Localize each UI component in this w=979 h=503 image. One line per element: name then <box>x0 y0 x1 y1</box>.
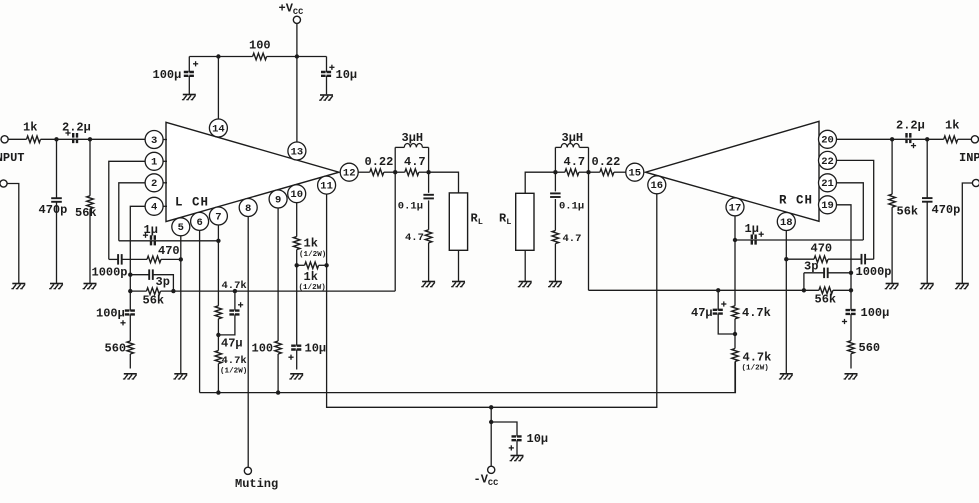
ground supply 100uF <box>182 95 196 100</box>
load resistor RL right <box>516 193 534 250</box>
resistor 4.7 R damping <box>565 169 579 176</box>
node R output A <box>586 170 590 174</box>
resistor 56k R input bias <box>889 194 896 207</box>
svg-text:Muting: Muting <box>235 477 278 491</box>
wire 470p to ground <box>56 202 58 283</box>
wire pin 12 output <box>358 171 370 173</box>
wire pin 17 down <box>734 216 736 306</box>
pin 17 R CH <box>726 198 744 216</box>
label 1uF left <box>144 223 158 237</box>
svg-text:(1/2W): (1/2W) <box>220 368 247 376</box>
wire 47uF branch right <box>717 290 719 310</box>
wire R output A-B <box>555 171 565 173</box>
ground R feedback chain <box>844 374 858 379</box>
node pin9 on bus <box>276 390 280 394</box>
capacitor 100uF R feedback <box>842 310 857 324</box>
load resistor RL left <box>449 193 467 250</box>
wire muting bias bus <box>200 362 736 393</box>
label 56k right input <box>897 205 919 219</box>
svg-text:17: 17 <box>729 202 742 214</box>
wire pin 17 down c <box>734 362 736 393</box>
wire L zobel mid <box>428 200 430 229</box>
label 470 right <box>811 242 833 256</box>
label INPUT left <box>0 151 25 165</box>
wire row 56k long b <box>161 290 396 292</box>
capacitor 100uF L feedback <box>120 311 135 326</box>
svg-text:100µ: 100µ <box>96 307 125 321</box>
wire pin 2 to 1uF row <box>119 183 145 241</box>
ground R 56k <box>885 284 899 289</box>
resistor 560 L feedback <box>127 341 134 354</box>
wire L load gnd <box>458 250 460 281</box>
svg-text:4.7: 4.7 <box>563 233 582 245</box>
label 47uF right <box>691 306 713 320</box>
pin 18 R CH <box>777 213 795 231</box>
wire to R load <box>525 172 555 193</box>
pin 16 R CH <box>648 176 666 194</box>
capacitor 10uF -Vcc <box>509 436 523 450</box>
wire R 470p branch <box>926 139 928 198</box>
svg-text:470: 470 <box>811 242 833 256</box>
wire R 56k branch <box>891 139 893 194</box>
svg-text:12: 12 <box>343 168 356 180</box>
ground pin10 10uF <box>289 374 303 379</box>
label 1000p right <box>856 265 892 279</box>
pin 20 R CH <box>819 130 837 148</box>
wire 100uF 560 chain b <box>129 314 131 341</box>
label 1k left <box>23 121 37 135</box>
svg-text:56k: 56k <box>75 206 97 220</box>
resistor 56k R feedback <box>819 287 833 294</box>
node 3p row right <box>849 271 853 275</box>
wire -Vcc 10uF gnd <box>516 440 518 455</box>
svg-text:10µ: 10µ <box>305 342 327 356</box>
svg-text:21: 21 <box>821 178 834 190</box>
wire to L load <box>429 172 459 193</box>
svg-text:3p: 3p <box>156 275 170 289</box>
wire bridge right stub <box>319 264 327 266</box>
wire R zobel <box>554 172 556 191</box>
label +VCC <box>279 2 304 18</box>
inductor 3uH R <box>555 143 588 172</box>
wire L feedback tap <box>394 172 396 291</box>
capacitor 1uF R feedback <box>752 232 764 246</box>
wire L input line b <box>41 138 146 140</box>
wire R input line <box>837 138 944 140</box>
wire L zobel <box>428 172 430 193</box>
wire pin 6 to bus <box>199 230 201 392</box>
resistor 100 (pin9) <box>275 341 282 354</box>
svg-text:13: 13 <box>291 146 304 158</box>
label RL right <box>499 212 511 228</box>
pin 12 L CH output <box>340 163 358 181</box>
label (1/2W) left <box>220 368 247 376</box>
wire row 470 right <box>786 258 814 260</box>
label 1k pin10 <box>304 237 318 251</box>
wire row 3p right <box>804 272 824 274</box>
svg-text:16: 16 <box>650 180 663 192</box>
svg-text:56k: 56k <box>897 205 919 219</box>
svg-text:(1/2W): (1/2W) <box>299 284 326 292</box>
pin 21 R CH <box>819 174 837 192</box>
svg-text:0.1µ: 0.1µ <box>559 201 584 213</box>
wire 100uF 560 chain c <box>129 354 131 369</box>
wire row 56k long right b <box>833 289 851 291</box>
label 100uF <box>153 68 182 82</box>
capacitor 2.2uF L input coupling <box>65 130 77 144</box>
capacitor 3p L feedback <box>149 269 153 280</box>
ground L input return <box>11 284 25 289</box>
label 0.1uF right <box>559 201 584 213</box>
pin 14 L CH <box>209 119 227 137</box>
node R output B <box>553 170 557 174</box>
op-amp L CH power amplifier <box>166 122 339 221</box>
node 47uF top right <box>716 288 720 292</box>
wire pin 11 to -Vcc row <box>327 194 492 407</box>
pin 3 L CH <box>145 131 163 149</box>
wire 56k branch <box>89 139 91 196</box>
node -Vcc cap tap <box>489 420 493 424</box>
label 4.7 right damping <box>564 155 586 169</box>
ground R 470p <box>920 284 934 289</box>
wire pin 10 down b <box>296 250 298 346</box>
wire pin 15 output <box>614 171 626 173</box>
wire L input line <box>9 138 27 140</box>
wire pin 22 to 1000p row <box>837 160 874 259</box>
resistor 1k 1/2W bridge <box>305 262 319 269</box>
inductor 3uH L <box>395 143 428 172</box>
wire L zobel gnd <box>428 243 430 281</box>
label 1k bridge <box>304 270 318 284</box>
pin 2 L CH <box>145 174 163 192</box>
node -Vcc on row <box>489 405 493 409</box>
wire R load gnd <box>524 250 526 281</box>
label -VCC <box>474 473 499 489</box>
wire pin 7 down b <box>217 319 219 351</box>
label 470p left <box>39 203 68 217</box>
svg-text:INPUT: INPUT <box>0 151 25 165</box>
capacitor 47uF L <box>229 302 243 314</box>
svg-text:R CH: R CH <box>779 194 813 208</box>
label RL left <box>471 212 483 228</box>
capacitor 3p R feedback <box>824 268 828 279</box>
svg-text:4.7k: 4.7k <box>742 306 771 320</box>
svg-text:10µ: 10µ <box>527 432 549 446</box>
svg-text:3p: 3p <box>804 260 818 274</box>
svg-text:100: 100 <box>252 342 274 356</box>
node L output B <box>426 170 430 174</box>
label (1/2W) right <box>742 365 769 373</box>
svg-text:3µH: 3µH <box>402 131 424 145</box>
label 3p left <box>156 275 170 289</box>
label 100 <box>249 39 271 53</box>
svg-text:470p: 470p <box>39 203 68 217</box>
svg-text:4.7: 4.7 <box>404 155 426 169</box>
resistor 4.7k 1/2W R <box>732 349 739 362</box>
pin 4 L CH <box>145 197 163 215</box>
node R input 56k tap <box>890 137 894 141</box>
ground supply 10uF <box>319 95 333 100</box>
label 0.22 right <box>592 155 621 169</box>
wire stub pin 3 <box>154 139 167 141</box>
node pin7 chain on bus <box>216 390 220 394</box>
wire pin 21 to 1uF row <box>837 183 864 240</box>
wire pin 5 down <box>180 236 182 374</box>
svg-text:560: 560 <box>105 342 127 356</box>
wire stub pin 2 <box>154 182 167 184</box>
label (1/2W) pin10 <box>299 251 326 259</box>
svg-text:3: 3 <box>151 135 157 147</box>
capacitor 1uF L feedback <box>143 233 155 247</box>
svg-text:(1/2W): (1/2W) <box>299 251 326 259</box>
wire row 470 right b <box>828 258 862 260</box>
label 0.1uF left <box>398 201 423 213</box>
label 3p right <box>804 260 818 274</box>
svg-text:11: 11 <box>320 181 333 193</box>
pin 15 R CH output <box>626 163 644 181</box>
svg-text:20: 20 <box>821 135 834 147</box>
label 560 right <box>859 341 881 355</box>
svg-text:470p: 470p <box>932 203 961 217</box>
label 56k left input <box>75 206 97 220</box>
ground R load <box>518 282 532 287</box>
resistor 4.7 L zobel <box>425 230 432 243</box>
wire R input line b <box>958 138 971 140</box>
label 4.7 left damping <box>404 155 426 169</box>
node 1uF row at pin 17 <box>733 238 737 242</box>
wire row C-D join right <box>803 273 805 291</box>
label 470 left <box>158 244 180 258</box>
label 560 left <box>105 342 127 356</box>
resistor 560 R feedback <box>848 341 855 354</box>
wire bridge left stub <box>297 264 305 266</box>
op-amp R CH power amplifier <box>646 121 820 221</box>
label 47uF left <box>221 337 243 351</box>
node 4.7k junction <box>216 333 220 337</box>
wire stub pin 22 <box>818 159 828 161</box>
node 56k row join right <box>802 288 806 292</box>
wire 47uF branch b <box>218 314 235 335</box>
wire +VCC terminal to pin 13 <box>296 24 298 143</box>
wire R zobel mid <box>554 199 556 231</box>
svg-text:470: 470 <box>158 244 180 258</box>
wire -Vcc 10uF branch <box>491 422 517 436</box>
capacitor 0.1uF L zobel <box>423 195 434 199</box>
node 56k row left <box>128 289 132 293</box>
resistor 4.7 R zobel <box>552 231 559 244</box>
svg-text:1µ: 1µ <box>745 222 759 236</box>
resistor 4.7k R (pin17) <box>732 306 739 319</box>
wire row 56k long right <box>589 289 819 291</box>
svg-text:4.7: 4.7 <box>564 155 586 169</box>
wire 100uF 560 chain <box>129 291 131 311</box>
pin 10 L CH <box>288 185 306 203</box>
svg-text:4: 4 <box>151 202 157 214</box>
svg-text:15: 15 <box>628 168 641 180</box>
wire pin 12 output b <box>384 171 395 173</box>
svg-text:7: 7 <box>215 211 221 223</box>
capacitor 10uF (pin10) <box>288 346 302 360</box>
wire rail to 10uF cap <box>326 57 328 73</box>
label 56k left feedback <box>143 294 165 308</box>
wire row 470 b <box>122 258 147 260</box>
wire 100uF 560 chain right b <box>850 314 852 341</box>
wire pin 9 down <box>277 208 279 341</box>
node R input 470p tap <box>925 137 929 141</box>
svg-text:INPUT: INPUT <box>959 151 979 165</box>
svg-text:9: 9 <box>275 194 281 206</box>
svg-text:19: 19 <box>821 200 834 212</box>
wire row 1uF <box>119 240 219 242</box>
pin 1 L CH <box>145 152 163 170</box>
wire pin4 node down <box>129 275 131 291</box>
resistor 1k 1/2W (pin10) <box>293 237 300 250</box>
capacitor 1000p R feedback <box>862 254 866 265</box>
svg-text:560: 560 <box>859 341 881 355</box>
wire pin 10 down c <box>296 350 298 370</box>
label 1uF right <box>745 222 759 236</box>
svg-text:10: 10 <box>290 189 303 201</box>
wire 47uF branch <box>234 291 236 311</box>
wire row 3p <box>130 274 149 276</box>
node L input 56k tap <box>88 137 92 141</box>
svg-text:100: 100 <box>249 39 271 53</box>
label 4.7 left zobel <box>405 232 424 244</box>
node rail to pin 14 <box>216 54 220 58</box>
wire row 3p b <box>153 275 174 291</box>
capacitor 470p L input <box>51 198 62 202</box>
node +VCC on rail <box>295 54 299 58</box>
capacitor 2.2uF R input coupling <box>907 133 917 148</box>
svg-text:0.1µ: 0.1µ <box>398 201 423 213</box>
node pin10 bridge <box>295 263 299 267</box>
svg-text:L CH: L CH <box>175 196 209 210</box>
ground R input return <box>955 284 969 289</box>
wire pin 10 down <box>296 203 298 237</box>
pin 22 R CH <box>819 151 837 169</box>
ground L feedback chain <box>123 374 137 379</box>
pin 13 L CH <box>288 142 306 160</box>
power rail +VCC bus wire <box>189 56 326 58</box>
wire pin 8 muting <box>247 217 249 467</box>
svg-text:100µ: 100µ <box>153 68 182 82</box>
wire pin 19 down <box>837 205 852 273</box>
wire L output A-B b <box>419 171 429 173</box>
pin 7 L CH <box>209 207 227 225</box>
wire pin 18 down <box>785 231 787 374</box>
pin 8 L CH <box>239 199 257 217</box>
node 47uF top <box>233 289 237 293</box>
wire 56k to ground <box>89 209 91 283</box>
terminal L input <box>1 136 8 143</box>
terminal Muting <box>244 467 251 474</box>
resistor 470 L feedback <box>147 256 161 263</box>
label 100uF right <box>861 306 890 320</box>
wire R feedback tap <box>588 172 590 290</box>
label 3uH left <box>402 131 424 145</box>
node 470 row at pin 18 <box>784 257 788 261</box>
wire 10uF to ground <box>326 76 328 95</box>
label 0.22 left <box>365 155 394 169</box>
ground pin 5 <box>173 374 187 379</box>
svg-text:2: 2 <box>151 178 157 190</box>
wire rail to 100uF cap <box>188 57 190 73</box>
label 1k right <box>945 119 959 133</box>
wire row 1uF right <box>735 239 863 241</box>
capacitor 1000p L feedback <box>118 254 122 265</box>
node 56k row right <box>171 289 175 293</box>
svg-text:1k: 1k <box>304 270 318 284</box>
svg-text:1k: 1k <box>304 237 318 251</box>
svg-text:18: 18 <box>780 217 793 229</box>
terminal R input return <box>972 179 979 186</box>
wire -Vcc branch <box>490 407 492 466</box>
resistor 56k L input bias <box>87 196 94 209</box>
svg-text:(1/2W): (1/2W) <box>742 365 769 373</box>
label 4.7k half W left <box>222 355 247 367</box>
wire 100uF 560 chain right <box>850 290 852 310</box>
label 2.2uF left <box>62 121 91 135</box>
wire stub pin 20 <box>818 138 828 140</box>
resistor 100 (supply filter) <box>253 53 267 60</box>
label (1/2W) bridge <box>299 284 326 292</box>
capacitor 0.1uF R zobel <box>550 193 561 197</box>
wire pin 15 output b <box>589 171 600 173</box>
svg-text:3µH: 3µH <box>562 131 584 145</box>
wire pin 16 to -Vcc row <box>491 194 657 407</box>
node 3p row left <box>128 273 132 277</box>
svg-text:1µ: 1µ <box>144 223 158 237</box>
pin 11 L CH <box>318 176 336 194</box>
svg-text:1k: 1k <box>23 121 37 135</box>
ground -Vcc 10uF <box>510 456 524 461</box>
svg-text:22: 22 <box>821 156 834 168</box>
capacitor 10uF supply decoupling <box>321 65 335 76</box>
wire pin 17 down b <box>734 319 736 349</box>
svg-text:1: 1 <box>151 157 157 169</box>
svg-text:56k: 56k <box>143 294 165 308</box>
wire row 3p right b <box>828 272 851 274</box>
svg-text:47µ: 47µ <box>691 306 713 320</box>
wire 470p branch <box>56 139 58 198</box>
svg-text:0.22: 0.22 <box>365 155 394 169</box>
label Muting <box>235 477 278 491</box>
pin 9 L CH <box>269 190 287 208</box>
svg-text:6: 6 <box>196 217 202 229</box>
terminal -VCC <box>488 466 495 473</box>
wire R 56k gnd <box>891 207 893 283</box>
svg-text:10µ: 10µ <box>336 68 358 82</box>
node 1uF row at pin 7 <box>216 239 220 243</box>
wire stub pin 21 <box>818 182 828 184</box>
capacitor 47uF R <box>713 301 727 313</box>
svg-text:14: 14 <box>212 123 225 135</box>
svg-text:5: 5 <box>178 222 184 234</box>
svg-text:100µ: 100µ <box>861 306 890 320</box>
wire stub pin 4 <box>154 205 167 207</box>
svg-text:47µ: 47µ <box>221 337 243 351</box>
node bridge on pin11 <box>324 263 328 267</box>
svg-text:RL: RL <box>499 212 511 228</box>
wire 100uF to ground <box>188 76 190 95</box>
svg-text:0.22: 0.22 <box>592 155 621 169</box>
resistor 1k L input <box>27 136 41 143</box>
svg-text:-VCC: -VCC <box>474 473 499 489</box>
svg-text:1k: 1k <box>945 119 959 133</box>
ground L 56k <box>83 284 97 289</box>
svg-text:1000p: 1000p <box>92 266 128 280</box>
wire L output A-B <box>395 171 405 173</box>
